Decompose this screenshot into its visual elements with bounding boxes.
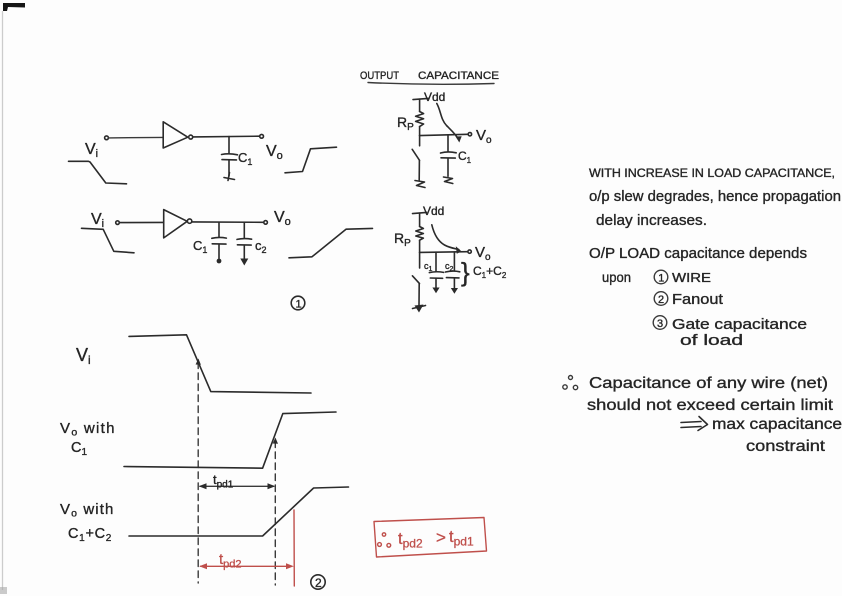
wire resistor to output node (circuit 4): [419, 240, 421, 252]
wire Vdd to resistor (circuit 4): [419, 213, 421, 226]
wire Vdd to resistor: [419, 99, 421, 111]
node Vo terminal (circuit 3): [468, 133, 471, 136]
wire capacitor C1 stub (circuit 3): [447, 135, 449, 152]
wire C1 to ground (circuit 3): [447, 158, 449, 176]
Vdd rail tick (circuit 3): [413, 98, 428, 99]
svg-text:Vdd: Vdd: [423, 204, 444, 218]
Vdd rail tick (circuit 4): [413, 212, 427, 213]
tpd2 dimension arrow (red): [201, 565, 292, 567]
current flow curved arrow (circuit 4): [432, 225, 459, 250]
therefore symbol: [569, 376, 573, 380]
svg-text:o/p slew degrades, hence propa: o/p slew degrades, hence propagation: [589, 188, 841, 205]
waveform Vi (timing): [129, 335, 311, 393]
red conclusion box: [374, 518, 487, 558]
capacitor C1 (circuit 1): [222, 153, 238, 156]
arrowhead top of line 1: [196, 359, 201, 365]
svg-text:C1+C2: C1+C2: [68, 526, 112, 544]
svg-text:3: 3: [657, 318, 663, 330]
inverter U2 output bubble: [187, 219, 191, 223]
wire capacitor to ground: [228, 160, 230, 176]
svg-text:1: 1: [296, 299, 302, 311]
wire input to inverter: [109, 136, 163, 139]
node Vi input terminal (circuit 1): [105, 136, 109, 140]
svg-text:Fanout: Fanout: [672, 292, 723, 308]
svg-text:Gate capacitance: Gate capacitance: [672, 317, 807, 333]
wire C2 to ground (circuit 2): [243, 246, 245, 260]
arrowhead top of line 2: [273, 438, 278, 444]
wire output node to Vo (circuit 4): [420, 251, 468, 254]
dashed reference line 1: [197, 362, 199, 583]
switch (circuit 3): [412, 149, 419, 160]
wire switch to ground (circuit 4): [418, 284, 420, 306]
page left edge line: [2, 11, 4, 590]
ground (switch circuit 4): [413, 306, 426, 309]
inverter U1 output bubble: [189, 135, 193, 139]
wire resistor to output node: [419, 127, 421, 136]
input slew waveform (circuit 1): [69, 161, 127, 184]
svg-text:1: 1: [658, 273, 664, 285]
svg-text:should not exceed certain limi: should not exceed certain limit: [587, 397, 834, 414]
circled 2 list marker: [654, 292, 668, 306]
wire input to inverter (circuit 2): [120, 221, 164, 223]
inverter U2: [164, 210, 188, 238]
inverter U1: [163, 122, 188, 148]
svg-text:upon: upon: [602, 270, 631, 285]
node Vo output terminal (circuit 2): [264, 221, 268, 225]
svg-text:of load: of load: [680, 333, 743, 349]
svg-text:Vdd: Vdd: [424, 90, 445, 104]
ground (switch circuit 3): [415, 181, 425, 188]
wire capacitor stub: [228, 137, 230, 153]
dashed reference line 2: [274, 441, 276, 585]
current flow curved arrow (circuit 3): [437, 104, 459, 140]
capacitor C1 (circuit 2): [212, 236, 227, 239]
svg-text:C1+C2: C1+C2: [473, 264, 507, 280]
switch stub (circuit 4): [419, 252, 421, 268]
svg-text:>: >: [436, 528, 446, 547]
capacitor C1 (circuit 4): [429, 271, 443, 274]
svg-text:2: 2: [315, 576, 322, 590]
circled 3 list marker: [653, 316, 667, 330]
page corner mark: [3, 3, 25, 11]
wire C1 to ground (circuit 4): [435, 279, 437, 289]
capacitor C1 (circuit 3): [441, 152, 457, 153]
waveform Vo with C1 (timing): [124, 412, 336, 468]
svg-text:}: }: [461, 257, 470, 287]
output slew waveform (circuit 1): [285, 147, 337, 173]
wire C1 to ground (circuit 2): [218, 245, 220, 259]
ground arrow (C1 circuit 4): [432, 288, 439, 294]
switch stub (circuit 3): [419, 136, 421, 146]
heading underline: [368, 83, 494, 85]
circled 2 annotation: [311, 575, 325, 589]
node Vo output terminal (circuit 1): [260, 134, 264, 138]
ground (circuit 1): [224, 173, 235, 181]
capacitor C2 (circuit 4): [445, 270, 459, 273]
wire capacitor C2 stub (circuit 4): [453, 252, 455, 271]
svg-text:Capacitance of any wire (net): Capacitance of any wire (net): [589, 375, 828, 392]
ground arrow (C2 circuit 2): [240, 259, 248, 266]
wire inverter to Vo (circuit 2): [192, 221, 263, 223]
circled 1 list marker: [654, 270, 668, 284]
svg-text:O/P LOAD capacitance depends: O/P LOAD capacitance depends: [589, 246, 807, 262]
switch (circuit 4): [412, 276, 419, 284]
output slew waveform (circuit 2): [289, 228, 373, 257]
input slew waveform (circuit 2): [82, 228, 135, 253]
svg-text:constraint: constraint: [746, 438, 826, 455]
wire capacitor C2 stub (circuit 2): [243, 222, 245, 238]
red reference line (tpd2 end): [293, 510, 295, 586]
svg-text:WITH INCREASE IN LOAD CAPACITA: WITH INCREASE IN LOAD CAPACITANCE,: [589, 168, 835, 180]
waveform Vo with C1+C2 (timing): [129, 487, 349, 536]
page bottom-left smudge: [0, 587, 7, 594]
resistor Rp (circuit 3): [416, 112, 424, 127]
wire capacitor C1 stub (circuit 2): [218, 222, 220, 237]
svg-text:max capacitance: max capacitance: [712, 416, 842, 433]
therefore symbol (red): [382, 533, 385, 536]
wire capacitor C1 stub (circuit 4): [435, 252, 437, 271]
wire switch to ground (circuit 3): [418, 160, 420, 180]
svg-text:CAPACITANCE: CAPACITANCE: [418, 70, 499, 82]
resistor Rp (circuit 4): [416, 227, 424, 241]
svg-text:Vo with: Vo with: [60, 420, 116, 439]
ground dot (C1 circuit 2): [217, 259, 222, 264]
svg-text:Vo with: Vo with: [60, 501, 114, 520]
ground arrow (C2 circuit 4): [451, 288, 458, 294]
node Vi input terminal (circuit 2): [116, 221, 120, 225]
svg-text:WIRE: WIRE: [672, 271, 711, 285]
wire output node to Vo (circuit 3): [420, 134, 468, 135]
wire C2 to ground (circuit 4): [453, 278, 455, 289]
capacitor C2 (circuit 2): [237, 238, 252, 241]
double arrow implies: [681, 417, 708, 431]
wire inverter to Vo: [193, 135, 259, 138]
svg-text:delay increases.: delay increases.: [596, 212, 707, 229]
tpd1 dimension arrow: [200, 485, 274, 487]
circled 1 annotation: [291, 296, 305, 310]
node Vo terminal (circuit 4): [468, 250, 471, 253]
ground (C1 circuit 3): [444, 177, 453, 184]
svg-text:2: 2: [658, 294, 664, 306]
svg-text:OUTPUT: OUTPUT: [360, 70, 399, 82]
